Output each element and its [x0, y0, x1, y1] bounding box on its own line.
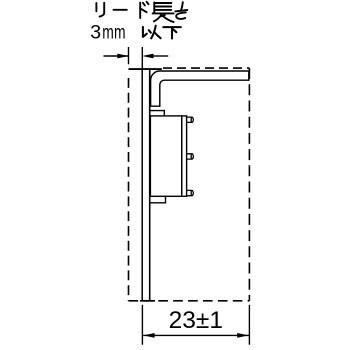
component body upper tab — [150, 111, 165, 116]
pin 1 (top) — [187, 117, 194, 122]
dashed right edge — [248, 68, 250, 301]
svg-text:3: 3 — [90, 22, 101, 44]
svg-text:mm: mm — [102, 21, 126, 43]
arrowhead right-pointing — [117, 54, 128, 59]
label "以下" hand-drawn glyphs — [143, 26, 181, 39]
dimension line — [143, 334, 249, 336]
pin header bar — [182, 116, 187, 196]
以 — [143, 27, 147, 37]
label "リード長さ" (lead length) hand-drawn glyphs — [96, 2, 187, 22]
下 — [163, 26, 181, 28]
pin 3 (bottom) — [187, 190, 194, 195]
dimension 23±1 extension lines — [142, 305, 249, 345]
dimension (3mm) leader line with arrows — [104, 47, 169, 69]
arrowhead left — [143, 333, 155, 338]
plate bottom cap — [140, 300, 155, 302]
extension tick left (top of dashed outline) — [128, 47, 130, 64]
dashed bottom edge — [129, 300, 250, 302]
component body — [150, 116, 181, 196]
lead wire through plate (top) — [129, 68, 162, 70]
extension tick right (top of plate) — [141, 47, 143, 69]
さ — [175, 10, 187, 11]
長 — [153, 2, 155, 13]
ー — [114, 9, 127, 11]
component body lower tab — [150, 196, 166, 203]
リ — [95, 3, 97, 11]
mounting plate (vertical board) — [140, 68, 155, 300]
bracket (bent mounting lug) — [151, 71, 249, 106]
svg-text:23±1: 23±1 — [169, 307, 223, 334]
dashed top edge — [163, 67, 249, 69]
arrowhead right — [237, 333, 249, 338]
pin 2 (middle) — [187, 154, 194, 159]
arrowhead left-pointing — [142, 54, 153, 59]
dashed left edge — [128, 78, 130, 301]
ド — [139, 3, 141, 18]
component outline dashed box — [129, 68, 250, 301]
